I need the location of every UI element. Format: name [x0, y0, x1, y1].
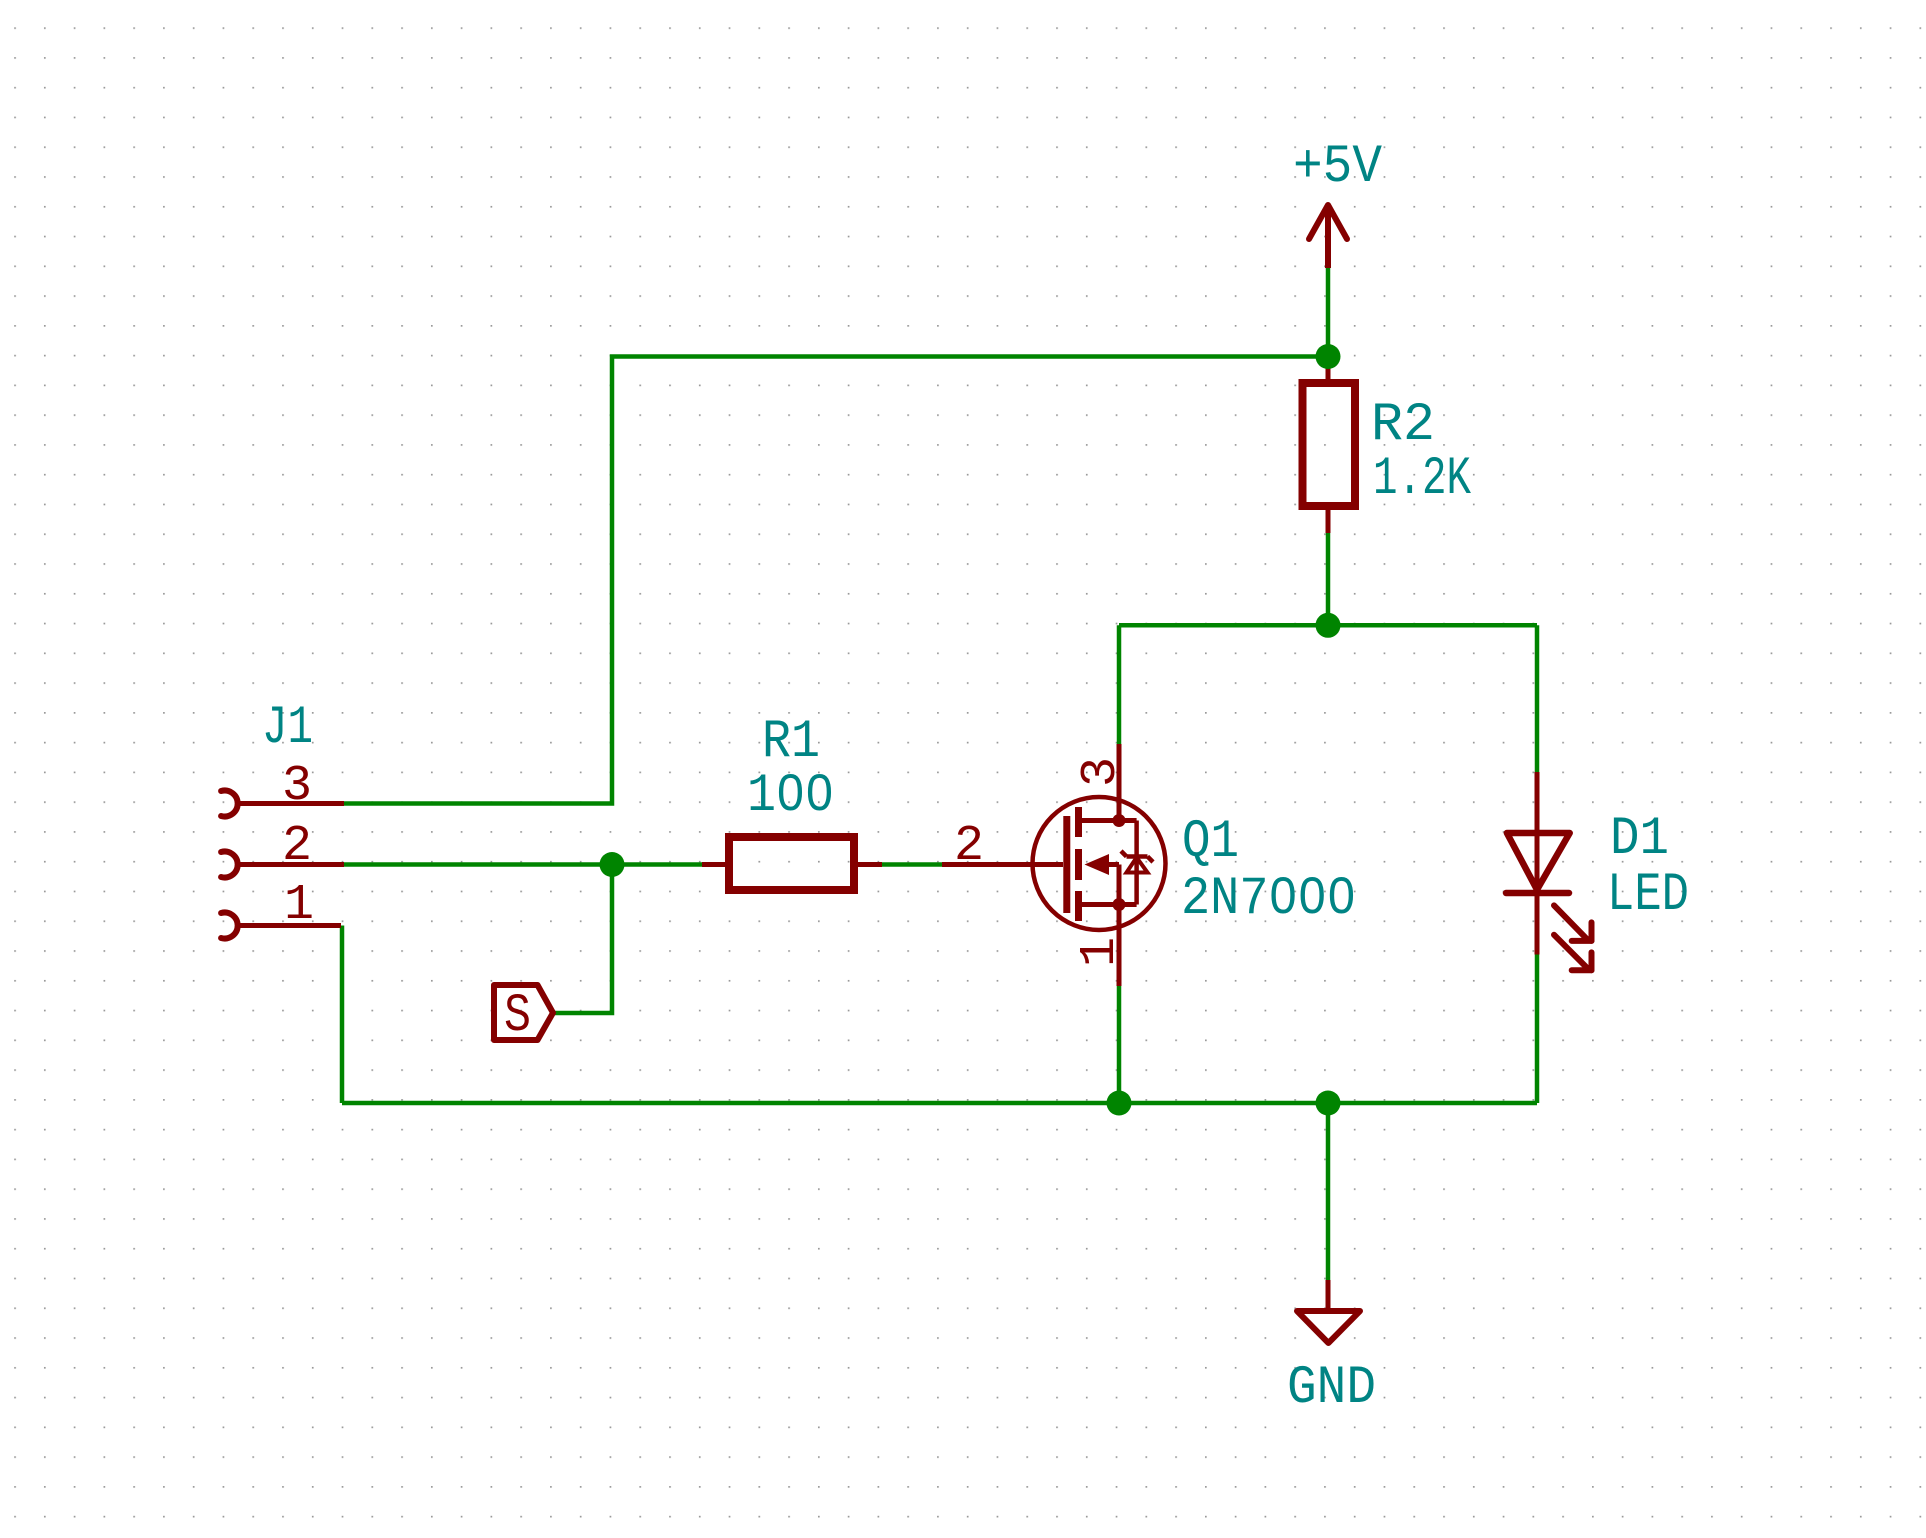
- source node dot: [1113, 898, 1126, 911]
- source pin: [1117, 905, 1122, 987]
- wire Q1 source to bottom rail: [1117, 986, 1122, 1103]
- LED arrow 2: [1554, 935, 1587, 968]
- resistor R1: [702, 837, 882, 890]
- svg-text:S: S: [504, 986, 531, 1047]
- junction node at +5V / R2: [1316, 344, 1341, 369]
- svg-text:D1: D1: [1610, 809, 1669, 870]
- svg-text:R1: R1: [762, 712, 820, 773]
- gate pin: [942, 862, 1063, 867]
- drain pin: [1117, 744, 1122, 821]
- wire +5V symbol stub down to node: [1326, 268, 1331, 357]
- gate bar: [1063, 816, 1070, 913]
- wire top rail to D1 anode: [1535, 625, 1540, 772]
- body diode: [1134, 821, 1139, 905]
- wire bottom rail to GND: [1326, 1103, 1331, 1280]
- svg-text:2: 2: [282, 818, 312, 875]
- substrate arrow: [1085, 854, 1110, 875]
- power symbol +5V: [1309, 205, 1347, 268]
- wire node to S label drop: [553, 865, 612, 1014]
- svg-text:Q1: Q1: [1182, 812, 1239, 873]
- resistor R2: [1303, 357, 1356, 534]
- wire bottom rail: [342, 1101, 1537, 1106]
- svg-text:J1: J1: [262, 698, 313, 759]
- wire top rail: [1119, 623, 1537, 628]
- junction node at Q1 source / bottom rail: [1107, 1091, 1132, 1116]
- junction node at R2 / top rail: [1316, 613, 1341, 638]
- svg-text:GND: GND: [1287, 1358, 1376, 1419]
- drain link: [1079, 818, 1137, 823]
- source link: [1079, 902, 1137, 907]
- LED arrow 1: [1554, 905, 1587, 938]
- svg-text:2N7000: 2N7000: [1181, 869, 1356, 930]
- svg-text:1: 1: [1072, 937, 1129, 967]
- svg-text:LED: LED: [1607, 865, 1689, 926]
- wire D1 cathode to bottom rail: [1535, 955, 1540, 1104]
- svg-text:R2: R2: [1371, 395, 1435, 456]
- channel dashes: [1075, 807, 1082, 837]
- junction node at pin2 / S: [600, 852, 625, 877]
- wire R2 bottom to top rail: [1326, 533, 1331, 625]
- wire pin2 of J1 to R1: [344, 862, 702, 867]
- svg-text:+5V: +5V: [1293, 137, 1383, 198]
- ground symbol GND: [1297, 1280, 1360, 1343]
- wire top rail to Q1 drain: [1117, 625, 1122, 744]
- svg-text:3: 3: [282, 758, 312, 815]
- wire R1 to Q1 gate: [882, 862, 942, 867]
- svg-text:1: 1: [284, 877, 314, 934]
- junction node at GND / bottom rail: [1316, 1091, 1341, 1116]
- svg-text:1.2K: 1.2K: [1373, 449, 1471, 510]
- transistor Q1 2N7000: [942, 744, 1166, 986]
- svg-text:3: 3: [1073, 757, 1130, 787]
- drain node dot: [1113, 814, 1126, 827]
- wire pin1 of J1 riser to bottom rail: [340, 926, 345, 1104]
- net label S: [494, 985, 553, 1047]
- wire pin3 of J1 to +5V node (up and across): [344, 357, 1328, 804]
- diode D1 LED: [1506, 772, 1592, 970]
- connector J1: [221, 790, 344, 938]
- svg-text:2: 2: [954, 818, 984, 875]
